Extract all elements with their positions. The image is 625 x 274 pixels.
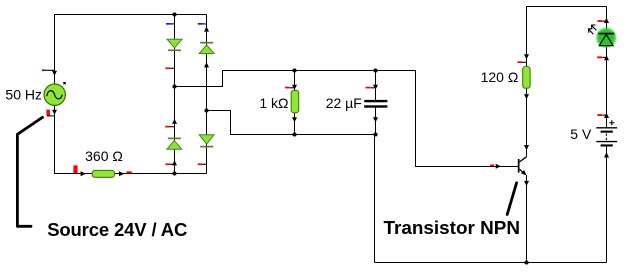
node dot capacitor top [373, 68, 377, 72]
annotation pointer to transistor [507, 183, 516, 215]
arrow up above LED [604, 18, 609, 23]
wire 1k resistor branch [294, 71, 296, 135]
resistor R120 (120 ohm) [523, 67, 530, 89]
arrow up above battery [604, 113, 609, 118]
probe tick red, left branch above bottom junction [165, 163, 174, 165]
node dot R1k top [292, 68, 296, 72]
probe tick red, right branch above bottom corner [198, 163, 207, 165]
svg-text:360 Ω: 360 Ω [85, 148, 123, 164]
svg-text:5 V: 5 V [570, 126, 592, 142]
node dot emitter bottom rail [524, 260, 528, 264]
wire AC loop bottom: source bottom to bridge bottom [55, 105, 207, 174]
wire bottom rail [375, 262, 607, 264]
probe tick blue, right branch top [198, 23, 207, 25]
node dot bridge bottom [172, 171, 176, 175]
arrow down below capacitor [373, 117, 378, 122]
probe tick red, above R120 [517, 61, 526, 63]
wire bridge right branch [206, 15, 208, 174]
probe tick red, above R1k [285, 87, 295, 89]
svg-text:50 Hz: 50 Hz [5, 86, 42, 102]
arrow up below top node right branch [204, 26, 209, 31]
wire collector branch up through 120R to top rail [527, 7, 607, 157]
arrow right before R360 [81, 171, 86, 176]
probe tick blue, left branch top [166, 23, 174, 25]
transistor Q1 NPN [518, 157, 527, 176]
AC source V1 [44, 84, 65, 105]
node dot R1k bottom [292, 132, 296, 136]
selection handle dot near source [63, 82, 66, 84]
wire DC+ node A to top rail [175, 71, 519, 167]
wire capacitor branch upper [375, 71, 377, 103]
wire battery bottom to rail [606, 147, 608, 263]
wire LED battery branch [606, 7, 608, 128]
node dot capacitor bottom [373, 132, 377, 136]
probe tick red, below D1 [165, 67, 174, 69]
probe tick blue, above source [42, 69, 54, 71]
resistor R1k (1 kilo-ohm) [291, 90, 299, 112]
arrow down below source [52, 110, 57, 115]
svg-text:22 µF: 22 µF [326, 95, 362, 111]
node dot B bridge right mid [204, 108, 208, 112]
wire DC- node B to bottom rail [207, 111, 376, 135]
diode D1 (bridge, down) [167, 39, 182, 50]
arrow down above capacitor [373, 85, 378, 90]
probe tick red, above D3 [165, 126, 174, 128]
arrow down above R120 [524, 54, 529, 59]
arrow right on base wire [496, 164, 501, 169]
probe tick red, below LED [597, 56, 606, 58]
arrow down above R1k [292, 85, 297, 90]
probe red bar left of R360 [73, 165, 77, 173]
node dot A bridge left mid [172, 84, 176, 88]
arrow down below R120 [524, 94, 529, 99]
arrow down below R1k [292, 117, 297, 122]
arrow down above source [52, 71, 57, 76]
arrow up between node A and D3 [172, 119, 177, 124]
wire emitter to bottom rail [526, 175, 528, 263]
svg-text:Source 24V / AC: Source 24V / AC [47, 219, 187, 240]
probe tick red, above capacitor [366, 87, 376, 89]
diode D2 (bridge, up) [199, 43, 214, 54]
wire bridge left branch [174, 15, 176, 174]
diode D3 (bridge, up) [167, 138, 182, 149]
capacitor C1 22uF plates [364, 100, 387, 108]
arrow down on collector wire [524, 145, 529, 150]
annotation pointer to source [17, 117, 42, 226]
arrow up below LED [604, 55, 609, 60]
svg-text:Transistor NPN: Transistor NPN [384, 218, 520, 239]
diode D4 (bridge, down) [199, 135, 214, 147]
arrow up between D2 and node B [204, 62, 209, 67]
probe tick red, above battery [597, 114, 606, 116]
probe red dash on base wire [490, 165, 494, 167]
probe tick red, above LED [598, 20, 607, 22]
node dot top AC/bridge [172, 12, 176, 16]
arrow down on emitter wire [524, 181, 529, 186]
resistor R360 (360 ohm) [92, 170, 114, 177]
svg-text:1 kΩ: 1 kΩ [259, 95, 288, 111]
LED D5 with glow [588, 25, 617, 49]
arrow right after R360 [119, 171, 124, 176]
probe red bar below source [46, 110, 54, 116]
arrow up below battery [604, 152, 609, 157]
battery B1 5V [596, 120, 617, 146]
wire capacitor branch lower to bottom rail [375, 106, 376, 263]
wire AC loop top: source top to bridge top [55, 15, 207, 86]
svg-text:120 Ω: 120 Ω [481, 69, 519, 85]
probe red dash right of R360 [127, 171, 132, 173]
arrow up above bottom junction left branch [172, 160, 177, 165]
